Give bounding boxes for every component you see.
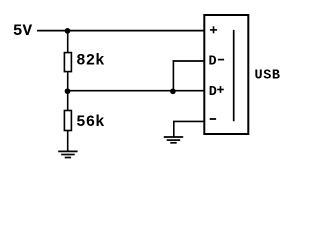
ground symbol left: [58, 151, 77, 157]
wire to USB D- pin: [173, 60, 205, 62]
wire divider node to USB D+ pin: [68, 90, 205, 92]
USB connector inner contact line: [233, 30, 235, 121]
wire USB - pin to ground: [174, 121, 205, 137]
svg-text:D: D: [209, 55, 217, 70]
junction node D-/D+ tie: [170, 88, 176, 94]
wire R1 bottom to node D+: [67, 72, 69, 111]
svg-text:56k: 56k: [76, 113, 105, 131]
svg-text:USB: USB: [255, 69, 281, 84]
junction node 5V/R1: [65, 28, 71, 34]
resistor R1 82k: [64, 53, 71, 72]
pin label +: [210, 26, 217, 33]
wire R2 bottom to ground: [67, 131, 69, 152]
svg-text:82k: 82k: [76, 52, 105, 70]
pin label -: [210, 118, 216, 120]
wire vertical D- to D+ tie: [172, 60, 174, 90]
wire 5V to USB + pin: [37, 30, 204, 32]
junction node R1/R2/D+: [65, 88, 71, 94]
ground symbol right: [164, 137, 183, 143]
svg-text:D: D: [209, 85, 217, 100]
wire node to R1 top: [67, 31, 69, 54]
USB connector body: [204, 15, 248, 134]
svg-text:5V: 5V: [13, 22, 33, 40]
resistor R2 56k: [64, 111, 71, 131]
